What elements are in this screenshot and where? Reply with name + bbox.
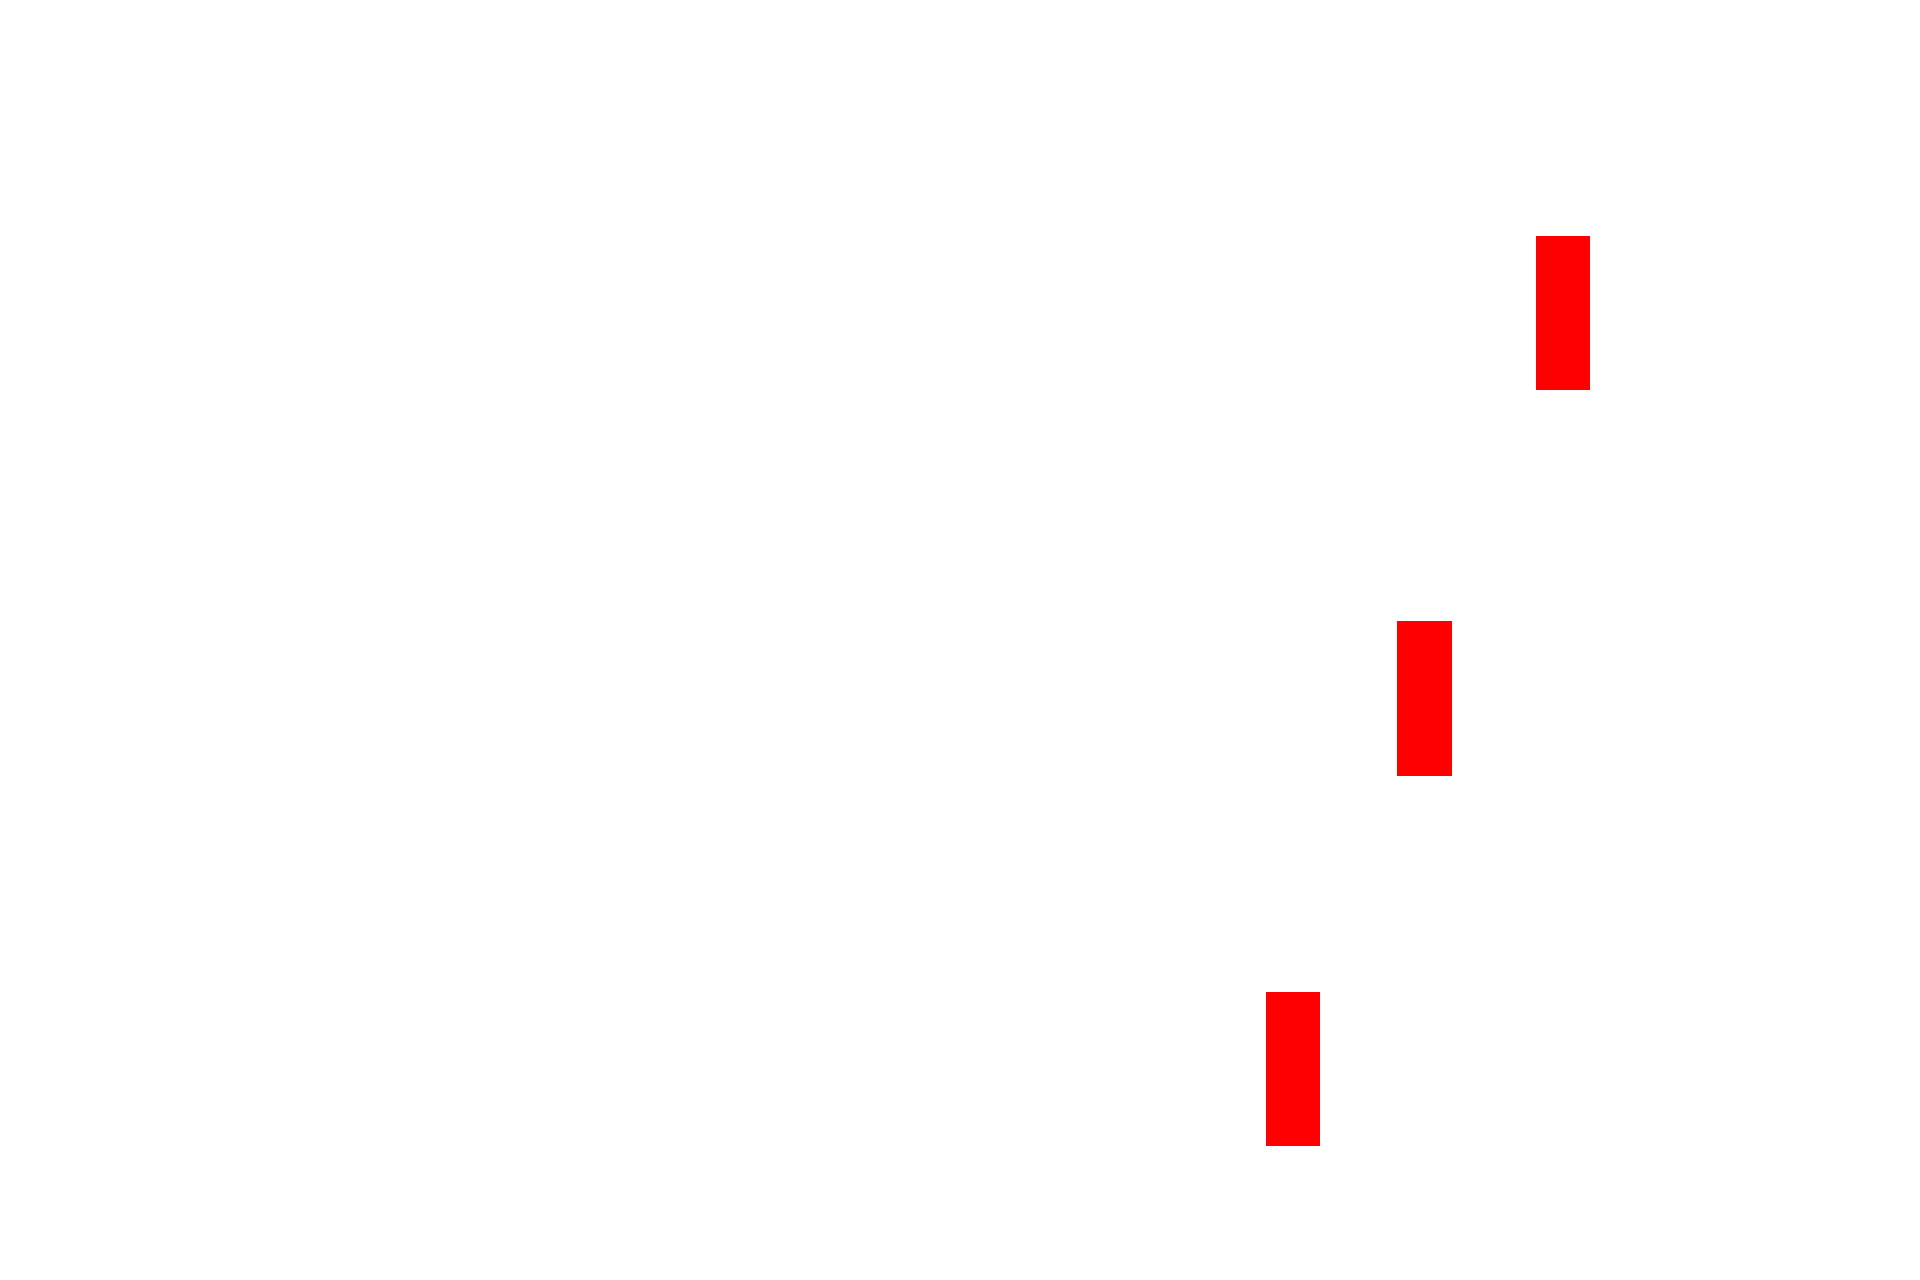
candle 2 (middle red bar): [1397, 621, 1452, 776]
candle 1 (top right red bar): [1536, 236, 1590, 390]
candle 3 (bottom left red bar): [1266, 992, 1320, 1146]
